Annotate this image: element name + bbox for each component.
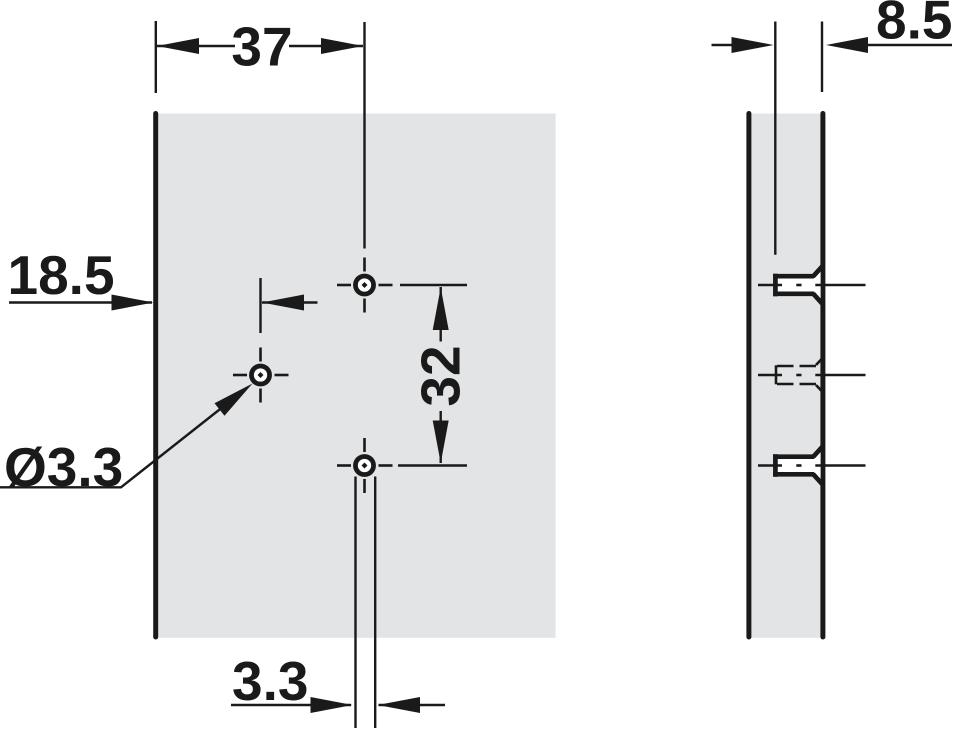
dimension 18.5 tail right <box>262 301 318 303</box>
dimension 3.3 arrow left (pointing right) <box>311 697 353 713</box>
dimension 18.5 line <box>9 301 152 303</box>
svg-text:18.5: 18.5 <box>8 244 115 306</box>
dimension 37 arrow left <box>157 38 199 54</box>
dimension 3.3 line right <box>379 704 446 706</box>
dimension 18.5 arrow (to hole axis) <box>262 295 304 311</box>
svg-text:3.3: 3.3 <box>232 650 308 712</box>
countersunk hole middle (hidden, dashed) <box>758 358 866 392</box>
hole middle front <box>233 348 289 403</box>
dimension 8.5 arrow (pointing left) <box>826 37 868 53</box>
side view right face extension line <box>821 22 823 93</box>
hole bottom front <box>337 438 393 493</box>
front view plate body <box>158 114 555 638</box>
diameter 3.3 leader line <box>0 391 243 487</box>
svg-text:8.5: 8.5 <box>876 0 952 51</box>
side view hole axis extension line <box>774 22 776 255</box>
dimension 3.3 line left <box>231 704 351 706</box>
svg-text:37: 37 <box>231 16 292 78</box>
side view right face (thick) <box>820 114 825 638</box>
bottom hole diameter extension line left <box>354 477 356 729</box>
diameter 3.3 leader arrow <box>215 384 253 416</box>
dimension 8.5 arrow (pointing right) <box>732 37 774 53</box>
side view left face (thick) <box>746 114 751 638</box>
dimension 32 line <box>440 287 442 342</box>
bottom hole diameter extension line right <box>374 477 376 729</box>
svg-text:32: 32 <box>410 345 472 406</box>
dimension 3.3 arrow right (pointing left) <box>378 697 420 713</box>
dimension 37 arrow right <box>321 38 363 54</box>
dimension 37 left extension line <box>155 21 157 93</box>
front view left edge (thick) <box>153 114 158 638</box>
dimension 18.5 arrow (to plate edge) <box>112 295 154 311</box>
dimension 32 arrow down <box>433 421 449 464</box>
countersunk hole bottom (section) <box>758 446 866 486</box>
countersunk hole top (section) <box>758 265 866 305</box>
dimension 37 right extension / top hole axis <box>363 22 365 249</box>
middle hole extension line <box>259 278 261 333</box>
side view plate body <box>751 114 820 638</box>
dimension 37 line <box>157 45 235 47</box>
dimension 32 top stub line <box>400 284 467 286</box>
dimension 32 bottom stub line <box>398 464 467 466</box>
dimension 8.5 tail right <box>864 44 952 46</box>
dimension 32 arrow up <box>433 288 449 331</box>
dimension 8.5 tail left <box>712 44 737 46</box>
svg-text:Ø3.3: Ø3.3 <box>4 436 123 498</box>
hole top front <box>337 258 393 313</box>
